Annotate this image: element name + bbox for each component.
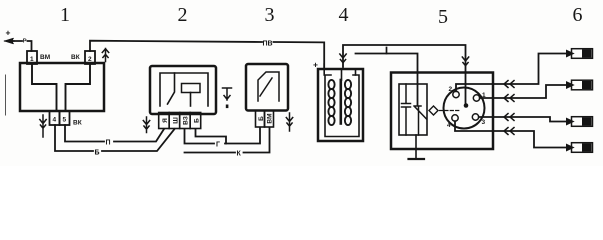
- wire: electrode 1 to spark plug 2: [480, 85, 567, 98]
- wire: coil primary to breaker contact: [356, 54, 418, 106]
- breaker relay K2 internal contact: [258, 72, 279, 101]
- svg-text:ВК: ВК: [73, 120, 82, 127]
- distributor U2 body: [391, 73, 493, 150]
- HT plug arrow at distributor: [462, 57, 468, 66]
- wire: relay VZ terminal to breaker relay, net G: [185, 128, 261, 144]
- svg-text:К: К: [237, 151, 242, 158]
- wire: relay B terminal jog: [196, 129, 227, 144]
- breaker contact points: [414, 106, 427, 135]
- svg-text:4: 4: [53, 117, 57, 124]
- spark plug FV2: [567, 80, 593, 90]
- wire: top bus from terminal 2 to ignition coil: [90, 41, 324, 69]
- grounding stub between relays: [223, 88, 232, 100]
- svg-text:Г: Г: [216, 142, 220, 149]
- tick label on primary wire: [386, 48, 388, 54]
- svg-text:ПВ: ПВ: [263, 40, 273, 47]
- connector chevrons row 3: [504, 114, 514, 121]
- ground arrow left of relay terminals: [143, 117, 149, 133]
- relay K1 internal frame: [160, 73, 208, 106]
- relay K1 body: [150, 66, 216, 114]
- ignition coil HT terminal lead and core: [341, 69, 343, 80]
- svg-text:Б: Б: [193, 118, 200, 123]
- switch U1 internal bus bars: [32, 64, 90, 111]
- wire: terminal 4 to relay, net B: [55, 125, 175, 151]
- rotor center dot: [464, 103, 469, 108]
- ignition coil secondary winding: [345, 80, 351, 125]
- breaker relay K2 lever: [260, 78, 272, 96]
- HT plug arrow at coil: [340, 54, 346, 63]
- svg-text:ВК: ВК: [71, 54, 80, 61]
- ignition coil feed into core: [323, 64, 325, 75]
- relay terminal VZ: [180, 113, 191, 129]
- ground bar: [409, 158, 425, 160]
- wire: bottom bus to breaker relay, net K: [185, 128, 270, 153]
- svg-text:6: 6: [573, 4, 583, 26]
- ground arrow right of breaker relay: [286, 113, 292, 131]
- svg-text:ВМ: ВМ: [266, 113, 273, 123]
- spark plug FV1: [567, 49, 593, 59]
- connector chevrons row 4: [504, 128, 514, 135]
- svg-text:3: 3: [482, 119, 486, 126]
- wire: electrode 4 to spark plug 4: [455, 121, 567, 147]
- svg-text:П: П: [106, 140, 111, 147]
- distributor ground lead: [415, 135, 417, 159]
- arrowhead to battery: [5, 39, 14, 44]
- relay terminal B: [190, 113, 201, 129]
- svg-text:ВМ: ВМ: [40, 54, 50, 61]
- wire: battery lead with left arrow: [8, 41, 32, 51]
- switch U1 terminal 2: [85, 51, 95, 64]
- svg-text:5: 5: [438, 6, 448, 28]
- ignition coil low terminal lead: [355, 69, 357, 75]
- svg-text:Б: Б: [95, 150, 100, 157]
- ground arrow below switch: [40, 115, 46, 137]
- svg-text:+: +: [6, 28, 11, 38]
- breaker relay K2 body: [246, 64, 288, 111]
- connector chevrons row 1: [504, 81, 514, 88]
- svg-text:ВЗ: ВЗ: [182, 116, 189, 125]
- cap electrode 2: [453, 91, 459, 97]
- cap electrode 3: [472, 114, 478, 120]
- relay K1 winding: [182, 84, 201, 93]
- switch U1 terminal 1: [27, 51, 37, 64]
- switch U1 body: [20, 63, 104, 111]
- ignition coil T1 body: [318, 69, 363, 141]
- relay terminal Sh: [169, 113, 180, 129]
- cam diamond: [429, 106, 438, 115]
- breaker relay terminal B: [256, 111, 265, 128]
- breaker compartment box: [399, 84, 427, 135]
- svg-text:2: 2: [178, 4, 188, 26]
- wire: terminal 5 to relay, net P: [65, 125, 164, 142]
- relay terminal Ya: [159, 113, 170, 129]
- scan artifact line at left edge: [5, 75, 7, 115]
- wire: electrode 2 to spark plug 1: [456, 54, 567, 92]
- capacitor C1: [402, 84, 411, 135]
- distributor cap circle: [444, 88, 485, 129]
- relay K1 contact lever: [168, 73, 175, 104]
- frame arrow above terminal 2: [102, 49, 108, 62]
- wire: electrode 3 to spark plug 3: [479, 117, 567, 122]
- ignition coil primary winding: [328, 80, 334, 125]
- spark plug FV4: [567, 143, 593, 153]
- dashed shaft to rotor: [440, 110, 462, 112]
- breaker relay terminal VM: [265, 111, 274, 128]
- svg-text:4: 4: [447, 122, 451, 129]
- svg-text:4: 4: [339, 4, 349, 26]
- svg-text:5: 5: [63, 117, 67, 124]
- cap electrode 4: [452, 115, 458, 121]
- svg-text:3: 3: [265, 4, 275, 26]
- switch U1 terminal 4: [50, 111, 60, 125]
- cap electrode 1: [473, 95, 479, 101]
- ignition coil inner core outline: [325, 75, 359, 137]
- spark plug FV3: [567, 117, 593, 127]
- svg-text:Я: Я: [162, 118, 169, 123]
- wire: HT cable from distributor to coil: [343, 45, 466, 104]
- svg-text:Р: Р: [23, 38, 27, 44]
- svg-text:1: 1: [60, 4, 70, 26]
- connector chevrons row 2: [504, 95, 514, 102]
- svg-text:2: 2: [449, 86, 453, 93]
- switch U1 terminal 5: [60, 111, 70, 125]
- svg-text:Ш: Ш: [172, 117, 179, 124]
